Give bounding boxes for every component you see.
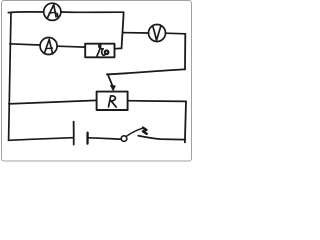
wire bottom left <box>9 138 73 141</box>
rheostat R box <box>97 92 128 110</box>
wire top row right <box>61 11 124 13</box>
wire V branch <box>123 32 149 34</box>
voltmeter V <box>149 25 166 42</box>
wire switch to battery <box>89 138 121 139</box>
wire R0 right pin <box>115 47 122 49</box>
switch <box>121 128 147 142</box>
wire V right <box>166 32 186 35</box>
wire A2 to R0 <box>57 45 85 48</box>
ammeter A1 <box>44 3 61 20</box>
wire R row right <box>128 100 186 103</box>
wire bottom right <box>138 136 185 140</box>
wire wiper horizontal <box>107 69 185 74</box>
wire wiper drop with arrow <box>108 74 116 90</box>
wire row2 left <box>10 44 40 45</box>
resistor R0 <box>85 44 114 58</box>
wire left vertical <box>9 12 11 140</box>
wire right vertical upper <box>184 34 186 70</box>
ammeter A2 <box>40 38 57 55</box>
battery <box>74 122 88 145</box>
wire top row left <box>8 11 43 14</box>
wire R row left <box>9 100 97 104</box>
wire right vertical lower <box>185 101 186 142</box>
wire middle vertical <box>122 12 124 48</box>
